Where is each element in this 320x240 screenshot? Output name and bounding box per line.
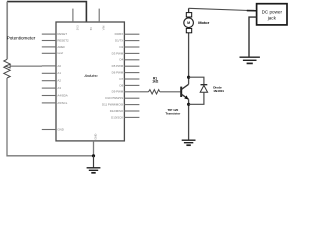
svg-text:Motor: Motor [198, 20, 210, 25]
svg-text:D2: D2 [119, 45, 123, 49]
wire collector to motor [188, 33, 190, 84]
wire collector node to diode cathode [189, 77, 204, 84]
svg-text:GND: GND [57, 127, 63, 131]
motor M1 top terminal [186, 13, 191, 17]
junction emitter node [187, 103, 190, 106]
pin D8 (right) [124, 84, 139, 86]
pin A1 (left) [42, 72, 56, 74]
svg-text:D1/TX: D1/TX [115, 39, 123, 43]
svg-text:1N4001: 1N4001 [213, 89, 224, 93]
svg-text:A3: A3 [57, 86, 61, 90]
svg-text:D5 PWM: D5 PWM [112, 64, 124, 68]
svg-text:5V: 5V [89, 27, 93, 30]
svg-text:Potentiometer: Potentiometer [7, 35, 36, 40]
ground arduino GND [87, 168, 101, 173]
wire potentiometer bottom to ground rail [7, 78, 94, 156]
pin A3 (left) [42, 87, 56, 89]
svg-text:D10 PWM/SS: D10 PWM/SS [105, 96, 123, 100]
pin A5/SCL (left) [42, 102, 56, 104]
wire motor to DC jack positive [188, 8, 190, 12]
pin GND (left) [42, 129, 56, 131]
svg-text:RESET: RESET [57, 32, 67, 36]
pin D7 (right) [124, 78, 139, 80]
pin D9 PWM (right) [124, 91, 139, 93]
pin D13/SCK (right) [124, 116, 139, 118]
transistor Q1 TIP120 base bar [180, 87, 182, 97]
svg-text:RESET2: RESET2 [57, 38, 69, 42]
svg-text:D7: D7 [119, 77, 123, 81]
svg-text:jack: jack [267, 15, 277, 20]
wire D9 PWM to R1 [139, 91, 148, 93]
DC power jack J1 [257, 4, 287, 25]
wire DC jack negative to ground [249, 17, 257, 57]
motor M1 body [184, 18, 194, 28]
transistor emitter lead [182, 94, 189, 99]
svg-text:D13/SCK: D13/SCK [111, 115, 123, 119]
svg-text:AREF: AREF [57, 45, 65, 49]
potentiometer wiper arrow [6, 64, 11, 68]
IC U1 Arduino module body [56, 22, 124, 141]
svg-text:D11 PWM/MOSI: D11 PWM/MOSI [102, 103, 123, 107]
svg-text:D0/RX: D0/RX [115, 32, 124, 36]
pin A0 (left) [42, 65, 56, 67]
svg-text:Arduino: Arduino [83, 74, 97, 78]
potentiometer RV1 zigzag element [4, 59, 10, 78]
svg-text:A2: A2 [57, 79, 61, 83]
pin D5 PWM (right) [124, 65, 139, 67]
svg-text:D9 PWM: D9 PWM [112, 90, 124, 94]
pin VIN [98, 9, 100, 22]
pin ioref (left) [42, 52, 56, 54]
pin D0/RX (right) [124, 33, 139, 35]
wire potentiometer top lead [6, 2, 8, 60]
svg-text:A5/SCL: A5/SCL [57, 101, 67, 105]
svg-text:D12/MISO: D12/MISO [110, 109, 124, 113]
pin A4/SDA (left) [42, 95, 56, 97]
transistor emitter arrow [184, 95, 188, 99]
motor M1 bottom terminal [186, 28, 191, 32]
pin D2 (right) [124, 46, 139, 48]
pin RESET (left) [42, 33, 56, 35]
junction collector node [187, 76, 190, 79]
wire diode anode to emitter node [189, 92, 204, 104]
svg-text:DC power: DC power [262, 9, 283, 14]
pin GND (bottom) [93, 141, 95, 156]
wire 5V-to-potentiometer top [7, 2, 86, 22]
pin A2 (left) [42, 80, 56, 82]
svg-text:ioref: ioref [57, 51, 63, 55]
pin D11 PWM/MOSI (right) [124, 104, 139, 106]
svg-text:D4: D4 [119, 58, 123, 62]
svg-text:A1: A1 [57, 71, 61, 75]
svg-text:VIN: VIN [102, 26, 106, 31]
pin D12/MISO (right) [124, 110, 139, 112]
wire R1 to base [160, 91, 181, 93]
pin 3V3 [72, 9, 74, 22]
svg-text:3V3: 3V3 [75, 25, 79, 30]
pin D10 PWM/SS (right) [124, 97, 139, 99]
pin D4 (right) [124, 59, 139, 61]
svg-text:D8: D8 [119, 83, 123, 87]
svg-text:A4/SDA: A4/SDA [57, 93, 67, 97]
svg-text:1kΩ: 1kΩ [152, 80, 159, 84]
resistor R1 [149, 90, 160, 94]
ground DC jack [240, 57, 260, 63]
svg-text:GND: GND [94, 134, 98, 140]
wire junction to arduino ground [93, 156, 95, 168]
svg-text:A0: A0 [57, 64, 61, 68]
pin AREF (left) [42, 46, 56, 48]
pin D3 PWM (right) [124, 52, 139, 54]
svg-text:Transistor: Transistor [165, 112, 181, 116]
diode D1 1N4001 cathode bar [201, 84, 208, 86]
diode D1 1N4001 triangle [200, 85, 207, 92]
svg-text:M: M [187, 21, 190, 25]
pin D1/TX (right) [124, 40, 139, 42]
wire emitter to ground [188, 99, 190, 140]
pin RESET2 (left) [42, 40, 56, 42]
transistor collector lead [182, 84, 189, 89]
ground emitter [182, 140, 196, 145]
svg-text:D6 PWM: D6 PWM [112, 71, 124, 75]
junction ground rail junction [92, 154, 95, 157]
svg-text:D3 PWM: D3 PWM [112, 51, 124, 55]
pin D6 PWM (right) [124, 72, 139, 74]
